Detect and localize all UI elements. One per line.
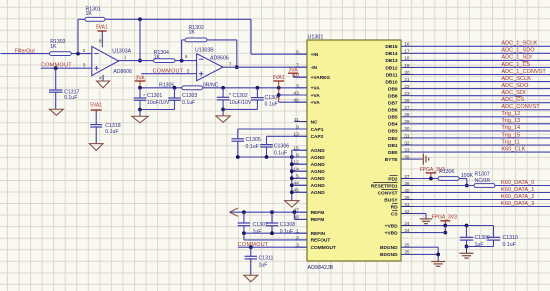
svg-text:35: 35 <box>404 250 410 256</box>
svg-text:BUSY: BUSY <box>384 197 398 203</box>
svg-text:33: 33 <box>404 147 410 153</box>
svg-text:DB6: DB6 <box>388 108 398 114</box>
svg-text:Trig_11: Trig_11 <box>501 139 519 145</box>
svg-text:3VA: 3VA <box>289 67 299 73</box>
svg-text:DB1: DB1 <box>388 143 398 149</box>
svg-text:C1310: C1310 <box>503 235 518 241</box>
svg-text:Trig_12: Trig_12 <box>501 111 520 117</box>
svg-text:+VBD: +VBD <box>385 223 398 229</box>
svg-text:K60_DATA_1: K60_DATA_1 <box>501 187 534 193</box>
svg-text:AD8606: AD8606 <box>113 69 132 75</box>
svg-text:R1307: R1307 <box>475 171 490 177</box>
svg-text:* C1302: * C1302 <box>229 93 248 99</box>
svg-text:1K: 1K <box>154 55 161 61</box>
svg-text:PD2: PD2 <box>388 176 398 182</box>
svg-text:40: 40 <box>404 188 410 194</box>
svg-text:36: 36 <box>404 195 410 201</box>
svg-text:FPGA_3V3: FPGA_3V3 <box>432 214 458 220</box>
svg-text:C1301: C1301 <box>147 93 162 99</box>
svg-text:COMMOUT: COMMOUT <box>238 242 269 248</box>
svg-text:10uF/10V: 10uF/10V <box>147 100 170 106</box>
svg-text:39: 39 <box>404 154 410 160</box>
svg-text:0.1uF: 0.1uF <box>503 242 516 248</box>
svg-text:ADC_1_CONVST: ADC_1_CONVST <box>501 69 546 75</box>
svg-text:+VA: +VA <box>311 100 321 106</box>
svg-text:C1306: C1306 <box>274 143 289 149</box>
svg-text:BYTE: BYTE <box>385 157 399 163</box>
svg-text:BDGND: BDGND <box>380 245 398 251</box>
svg-text:18: 18 <box>404 56 410 62</box>
svg-text:CONVST: CONVST <box>378 190 398 196</box>
svg-text:7: 7 <box>229 61 232 67</box>
svg-text:17: 17 <box>404 49 410 55</box>
svg-text:0.1uF: 0.1uF <box>265 102 278 108</box>
svg-text:8: 8 <box>99 39 102 45</box>
svg-text:21: 21 <box>404 77 410 83</box>
svg-text:DB15: DB15 <box>385 44 398 50</box>
svg-text:RESET/PD1: RESET/PD1 <box>371 183 398 189</box>
svg-text:16: 16 <box>404 42 410 48</box>
svg-text:DB8: DB8 <box>388 93 398 99</box>
svg-text:19: 19 <box>404 63 410 69</box>
svg-text:DB10: DB10 <box>385 79 398 85</box>
svg-text:C1303: C1303 <box>182 93 197 99</box>
svg-text:ADC_1_CS: ADC_1_CS <box>501 62 530 68</box>
svg-text:AD9842JB: AD9842JB <box>308 265 334 271</box>
svg-text:CAP1: CAP1 <box>311 127 324 133</box>
svg-text:0R/NC: 0R/NC <box>203 82 219 88</box>
svg-text:AD8606: AD8606 <box>210 55 229 61</box>
svg-text:5VA1: 5VA1 <box>96 25 108 31</box>
svg-text:2: 2 <box>83 48 86 54</box>
svg-text:ADC_1_SDI: ADC_1_SDI <box>501 55 532 61</box>
svg-text:FilterOut: FilterOut <box>15 48 36 54</box>
svg-text:ADC_SDI: ADC_SDI <box>501 90 526 96</box>
svg-text:K60_DATA_0: K60_DATA_0 <box>501 180 534 186</box>
svg-text:Trig_13: Trig_13 <box>501 118 520 124</box>
svg-text:U1303A: U1303A <box>112 49 131 55</box>
svg-text:DB7: DB7 <box>388 101 398 107</box>
svg-text:1K: 1K <box>50 44 57 50</box>
svg-text:REFIN: REFIN <box>311 231 326 237</box>
svg-text:0.1uF: 0.1uF <box>280 229 293 235</box>
svg-text:COMMOUT: COMMOUT <box>311 245 336 251</box>
svg-text:26: 26 <box>404 98 410 104</box>
svg-text:11: 11 <box>294 117 299 123</box>
svg-text:DB9: DB9 <box>388 86 398 92</box>
svg-text:24: 24 <box>404 221 410 227</box>
svg-text:DB4: DB4 <box>388 122 398 128</box>
svg-text:6: 6 <box>185 54 188 60</box>
svg-text:5VA1: 5VA1 <box>273 75 285 81</box>
svg-text:C1305: C1305 <box>246 137 261 143</box>
svg-text:BDGND: BDGND <box>380 252 398 258</box>
svg-text:U1301: U1301 <box>308 34 324 40</box>
svg-text:+VBD: +VBD <box>385 230 398 236</box>
svg-text:ADC_SDO: ADC_SDO <box>501 83 529 89</box>
svg-text:DB12: DB12 <box>385 65 398 71</box>
svg-text:23: 23 <box>404 91 410 97</box>
svg-text:3VA: 3VA <box>135 75 145 81</box>
svg-text:+IN: +IN <box>311 52 319 58</box>
svg-text:20: 20 <box>404 70 410 76</box>
svg-text:28: 28 <box>404 112 410 118</box>
svg-text:41: 41 <box>404 202 410 208</box>
svg-text:NC/0R: NC/0R <box>475 178 491 184</box>
svg-text:22: 22 <box>404 84 410 90</box>
svg-text:AGND: AGND <box>311 169 326 175</box>
svg-text:DB11: DB11 <box>386 72 398 78</box>
svg-text:K60_DATA_3: K60_DATA_3 <box>501 201 534 207</box>
svg-text:-IN: -IN <box>311 65 318 71</box>
svg-text:K60_DATA_2: K60_DATA_2 <box>501 194 534 200</box>
svg-text:ADC_CS: ADC_CS <box>501 97 524 103</box>
svg-text:0.1uF: 0.1uF <box>246 144 259 150</box>
svg-text:C1308: C1308 <box>280 222 295 228</box>
svg-text:COMMOUT: COMMOUT <box>153 68 184 74</box>
svg-text:R1305: R1305 <box>159 82 174 88</box>
svg-text:K60_CLK: K60_CLK <box>501 146 525 152</box>
svg-text:REFOUT: REFOUT <box>311 238 331 244</box>
svg-text:ADC_SCLK: ADC_SCLK <box>501 76 531 82</box>
svg-text:AGND: AGND <box>311 190 326 196</box>
svg-text:RD: RD <box>391 204 398 210</box>
svg-text:0.1uF: 0.1uF <box>105 129 118 135</box>
svg-text:ADC_1_SCLK: ADC_1_SCLK <box>501 41 537 47</box>
svg-text:37: 37 <box>404 174 410 180</box>
svg-text:REFM: REFM <box>311 210 325 216</box>
svg-text:29: 29 <box>404 119 410 125</box>
svg-text:DB3: DB3 <box>388 129 398 135</box>
svg-text:DB2: DB2 <box>388 136 398 142</box>
svg-text:*: * <box>143 93 145 99</box>
svg-text:DB0: DB0 <box>388 150 398 156</box>
svg-text:AGND: AGND <box>311 155 326 161</box>
svg-text:REFM: REFM <box>311 217 325 223</box>
svg-text:31: 31 <box>404 133 410 139</box>
svg-text:C1307: C1307 <box>253 222 268 228</box>
svg-text:1K: 1K <box>86 11 93 17</box>
svg-text:CS: CS <box>391 211 398 217</box>
svg-text:C1311: C1311 <box>259 255 274 261</box>
svg-text:+VA: +VA <box>311 86 321 92</box>
svg-text:ADC_1_SDO: ADC_1_SDO <box>501 48 535 54</box>
svg-text:ADC_CONVST: ADC_CONVST <box>501 104 540 110</box>
svg-text:+VA: +VA <box>311 93 321 99</box>
svg-text:AGND: AGND <box>311 183 326 189</box>
svg-text:R1306: R1306 <box>439 169 454 175</box>
svg-text:27: 27 <box>404 105 410 111</box>
svg-text:+VAREG: +VAREG <box>311 75 331 81</box>
svg-text:NC: NC <box>311 119 318 125</box>
svg-text:1uF: 1uF <box>253 229 262 235</box>
svg-text:25: 25 <box>404 243 410 249</box>
svg-text:1uF: 1uF <box>259 262 268 268</box>
svg-text:1K: 1K <box>189 30 196 36</box>
svg-text:30: 30 <box>404 126 410 132</box>
svg-text:DB13: DB13 <box>385 58 398 64</box>
svg-text:10uF/10V: 10uF/10V <box>229 100 252 106</box>
svg-text:32: 32 <box>404 140 410 146</box>
svg-text:1: 1 <box>124 55 127 61</box>
svg-text:0.1uF: 0.1uF <box>64 95 77 101</box>
svg-text:34: 34 <box>404 228 410 234</box>
svg-text:Trig_15: Trig_15 <box>501 132 520 138</box>
svg-text:U1303B: U1303B <box>195 48 214 54</box>
svg-text:42: 42 <box>404 209 410 215</box>
svg-text:Trig_14: Trig_14 <box>501 125 520 131</box>
svg-text:CAP2: CAP2 <box>311 134 324 140</box>
svg-text:DB14: DB14 <box>385 51 398 57</box>
svg-text:1uF: 1uF <box>475 242 484 248</box>
svg-text:5VA1: 5VA1 <box>90 102 102 108</box>
svg-text:AGND: AGND <box>311 148 326 154</box>
svg-text:AGND: AGND <box>311 162 326 168</box>
svg-text:38: 38 <box>404 181 410 187</box>
svg-text:0.1uF: 0.1uF <box>274 150 287 156</box>
svg-text:AGND: AGND <box>311 176 326 182</box>
svg-text:DB5: DB5 <box>388 115 398 121</box>
svg-text:0.1uF: 0.1uF <box>182 100 195 106</box>
